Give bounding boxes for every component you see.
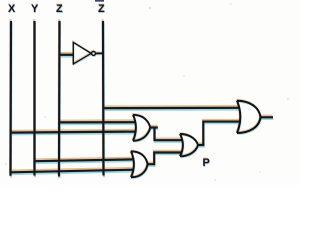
label X [8, 3, 15, 15]
chromatic fringe (red/yellow, offset up) [10, 19, 273, 175]
label Zbar overline (clipped at top edge) [95, 0, 104, 2]
label Y [31, 3, 38, 15]
gate chromatic fringe (cyan, offset down-right) [74, 43, 261, 178]
scan speckles [5, 3, 289, 181]
gate chromatic fringe (red, offset up-left) [73, 41, 260, 176]
label Z [56, 3, 63, 15]
chromatic fringe (cyan, offset down) [11, 23, 274, 179]
label P (node P) [203, 157, 210, 169]
label Zbar [98, 3, 105, 15]
main black ink [11, 21, 240, 177]
